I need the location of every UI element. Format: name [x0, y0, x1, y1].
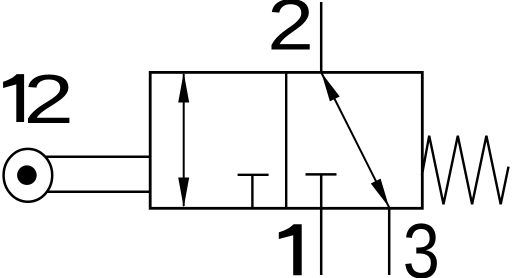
label 12: digit 2: [23, 61, 74, 138]
position divider line: [285, 72, 287, 208]
blocked port T bar (right square, port 1): [306, 173, 337, 176]
valve body rectangle: [150, 72, 422, 208]
port 3 line: [388, 208, 391, 275]
roller actuator: plunger rod bottom line: [44, 191, 151, 194]
svg-text:3: 3: [403, 208, 440, 278]
port 1 line: [320, 174, 323, 275]
blocked port T (left square): [238, 175, 269, 208]
label 1 (supply port, custom glyph): [279, 224, 302, 275]
svg-text:2: 2: [23, 61, 74, 138]
port 2 line: [320, 2, 323, 72]
roller actuator: plunger rod top line: [44, 155, 151, 158]
roller actuator: roller pin (filled): [17, 165, 37, 185]
flow path double arrow (right square, diagonal 2-3): [321, 73, 389, 208]
label 3 (exhaust port): [403, 208, 440, 278]
flow path double arrow (left square, vertical): [178, 73, 189, 208]
return spring: [422, 136, 509, 205]
roller actuator: roller circle: [4, 149, 53, 202]
label 12: digit 1 (custom glyph): [3, 74, 24, 122]
label 2 (working port): [267, 0, 314, 65]
svg-text:2: 2: [267, 0, 314, 65]
